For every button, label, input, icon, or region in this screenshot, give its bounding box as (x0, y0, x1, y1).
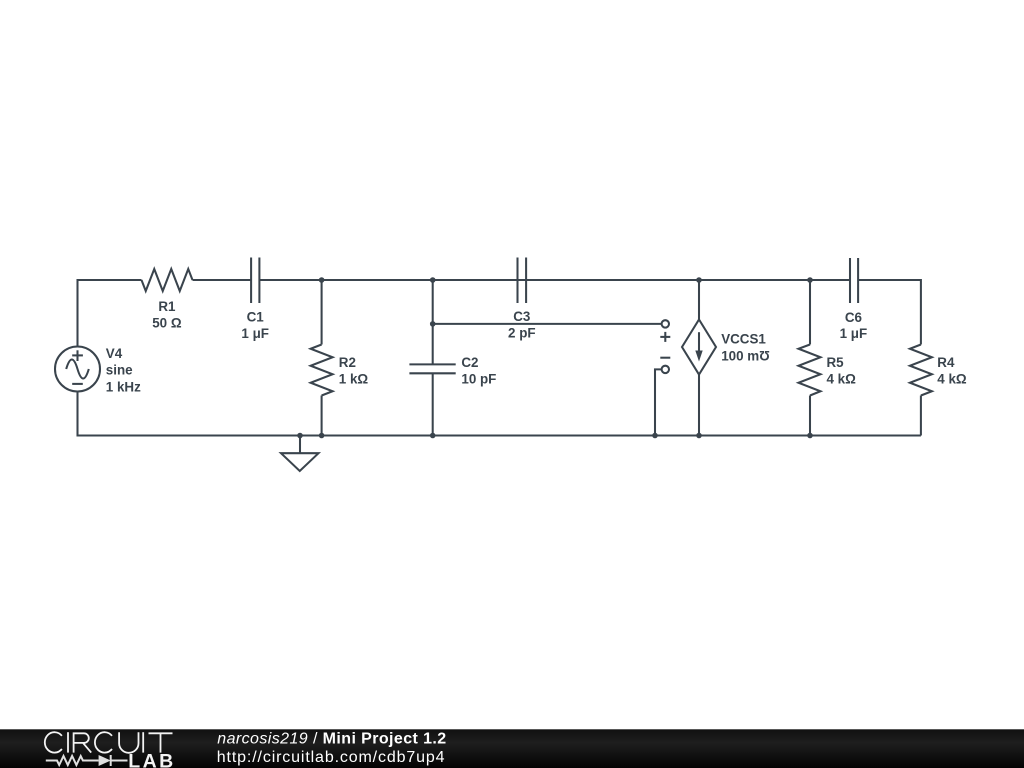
wire R1 to C1 (193, 279, 252, 281)
svg-text:sine: sine (106, 363, 133, 378)
resistor R5 (799, 345, 821, 396)
node ground (297, 433, 303, 439)
capacitor C1 (251, 258, 259, 304)
label C6 1uF (840, 310, 868, 341)
capacitor C3 (518, 258, 527, 304)
svg-text:LAB: LAB (128, 750, 175, 768)
svg-text:R5: R5 (827, 355, 845, 370)
svg-text:50 Ω: 50 Ω (152, 316, 182, 331)
resistor R1 (142, 269, 193, 291)
logo CIRCUIT wordmark (45, 732, 173, 753)
label R5 4k (827, 355, 857, 387)
node R2 bottom (319, 433, 325, 439)
svg-text:R1: R1 (158, 299, 176, 314)
logo resistor-diode symbol (46, 755, 128, 766)
svg-text:C1: C1 (247, 310, 265, 325)
svg-text:10 pF: 10 pF (461, 372, 496, 387)
wire top rail left: V4 top to R1 (78, 280, 142, 347)
label R2 1k (339, 355, 369, 387)
node C2 top (430, 277, 436, 283)
terminal negative (662, 366, 669, 373)
wire terminal negative to bottom rail (655, 369, 662, 435)
wire C3 node branch to terminal (433, 323, 662, 325)
resistor R4 (910, 345, 932, 396)
node VCCS1 top (696, 277, 702, 283)
terminal positive (662, 320, 669, 327)
node C3 branch (430, 321, 436, 327)
node R5 top (807, 277, 813, 283)
svg-text:http://circuitlab.com/cdb7up4: http://circuitlab.com/cdb7up4 (217, 749, 446, 766)
svg-text:2 pF: 2 pF (508, 326, 536, 341)
wire C2 branch vertical (432, 280, 434, 436)
label V4 (106, 346, 141, 394)
svg-text:1 kHz: 1 kHz (106, 379, 141, 394)
svg-text:100 mƱ: 100 mƱ (721, 348, 770, 363)
label VCCS1 100mU (721, 332, 770, 364)
ground (281, 436, 319, 472)
label C1 1uF (241, 310, 269, 341)
wire R2 branch vertical (321, 280, 323, 436)
capacitor C2 (409, 364, 455, 373)
dependent source VCCS1 (682, 320, 716, 375)
svg-text:1 μF: 1 μF (241, 326, 269, 341)
wire top rail: C1 to C6 (259, 279, 850, 281)
svg-text:4 kΩ: 4 kΩ (937, 372, 967, 387)
svg-text:R4: R4 (937, 355, 955, 370)
wire C6 to top-right corner down to R4 (858, 280, 921, 345)
wire bottom rail (78, 392, 921, 436)
svg-text:1 kΩ: 1 kΩ (339, 372, 369, 387)
wire VCCS1 branch vertical (698, 280, 700, 436)
svg-text:narcosis219 / Mini Project 1.2: narcosis219 / Mini Project 1.2 (217, 731, 446, 748)
resistor R2 (311, 345, 333, 396)
node terminal branch bottom (652, 433, 658, 439)
label R1 50 ohm (152, 299, 182, 330)
svg-text:R2: R2 (339, 355, 356, 370)
node R2 top (319, 277, 325, 283)
wire R4 bottom to bottom rail (920, 396, 922, 436)
footer bar (0, 729, 1024, 768)
svg-text:C2: C2 (461, 355, 478, 370)
svg-text:1 μF: 1 μF (840, 326, 868, 341)
label C3 2pF (508, 309, 536, 341)
label R4 4k (937, 355, 967, 387)
voltage source V4 (55, 347, 100, 392)
node R5 bottom (807, 433, 813, 439)
svg-text:VCCS1: VCCS1 (721, 332, 766, 347)
minus sign (660, 357, 670, 359)
capacitor C6 (850, 258, 858, 303)
svg-text:4 kΩ: 4 kΩ (827, 372, 857, 387)
wire R5 branch vertical (809, 280, 811, 436)
svg-text:C6: C6 (845, 310, 862, 325)
label C2 10pF (461, 355, 496, 387)
svg-text:C3: C3 (513, 309, 530, 324)
svg-text:V4: V4 (106, 346, 123, 361)
node VCCS1 bottom (696, 433, 702, 439)
credit title text (217, 731, 447, 767)
logo LAB text (128, 750, 175, 768)
plus sign (660, 332, 670, 342)
node C2 bottom (430, 433, 436, 439)
